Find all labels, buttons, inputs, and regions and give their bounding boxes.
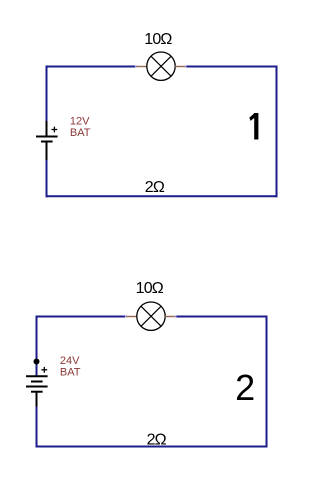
svg-text:10Ω: 10Ω: [144, 31, 172, 48]
wire: lamp L1 right copper lead: [175, 66, 186, 68]
lamp L1 (10 ohm): [147, 52, 175, 80]
wire: circuit 2 top-left segment: [37, 316, 127, 318]
node: lamp L1 right pin dot: [185, 65, 187, 67]
battery B1 plus sign: [52, 127, 58, 133]
battery B2 plate 4 (short): [31, 391, 43, 393]
lamp L2 (10 ohm): [137, 302, 165, 330]
wire: circuit 1 top-right segment: [187, 66, 277, 68]
svg-text:BAT: BAT: [70, 127, 91, 139]
node: lamp L2 left pin dot: [125, 315, 127, 317]
wire: circuit 1 left lower segment: [46, 160, 48, 197]
battery B2 bottom lead: [36, 392, 38, 407]
svg-text:24V: 24V: [60, 355, 80, 367]
wire: circuit 2 top-right segment: [177, 316, 267, 318]
battery B2 plate 1 (long): [26, 375, 48, 377]
battery B2 plus sign: [41, 367, 47, 373]
battery B1 positive plate: [36, 136, 58, 138]
battery B1 bottom lead: [46, 142, 48, 161]
wire: circuit 2 left lower segment: [36, 407, 38, 448]
wire: circuit 2 bottom (2 ohm): [36, 446, 268, 448]
junction node above battery B2: [34, 359, 40, 365]
label: circuit number 1: [249, 113, 258, 140]
wire: circuit 1 left upper segment: [46, 66, 48, 123]
wire: lamp L2 left copper lead: [127, 316, 138, 318]
battery B2 plate 2 (short): [31, 381, 43, 383]
svg-text:2Ω: 2Ω: [147, 431, 167, 448]
wire: circuit 1 right side: [276, 66, 278, 198]
battery B2 plate 3 (long): [26, 386, 48, 388]
svg-text:12V: 12V: [70, 115, 90, 127]
wire: lamp L1 left copper lead: [137, 66, 148, 68]
wire: circuit 1 top-left segment: [47, 66, 137, 68]
svg-text:2: 2: [235, 367, 255, 408]
battery B1 top lead: [46, 121, 48, 137]
wire: circuit 2 right side: [266, 316, 268, 448]
svg-text:BAT: BAT: [60, 367, 81, 379]
battery B1 negative plate: [41, 141, 53, 143]
wire: circuit 1 bottom (2 ohm): [46, 195, 278, 197]
wire: lamp L2 right copper lead: [165, 316, 176, 318]
wire: circuit 2 left upper segment: [36, 316, 38, 377]
svg-text:10Ω: 10Ω: [136, 280, 164, 297]
node: lamp L1 left pin dot: [135, 65, 137, 67]
svg-text:2Ω: 2Ω: [145, 179, 165, 196]
node: lamp L2 right pin dot: [175, 315, 177, 317]
